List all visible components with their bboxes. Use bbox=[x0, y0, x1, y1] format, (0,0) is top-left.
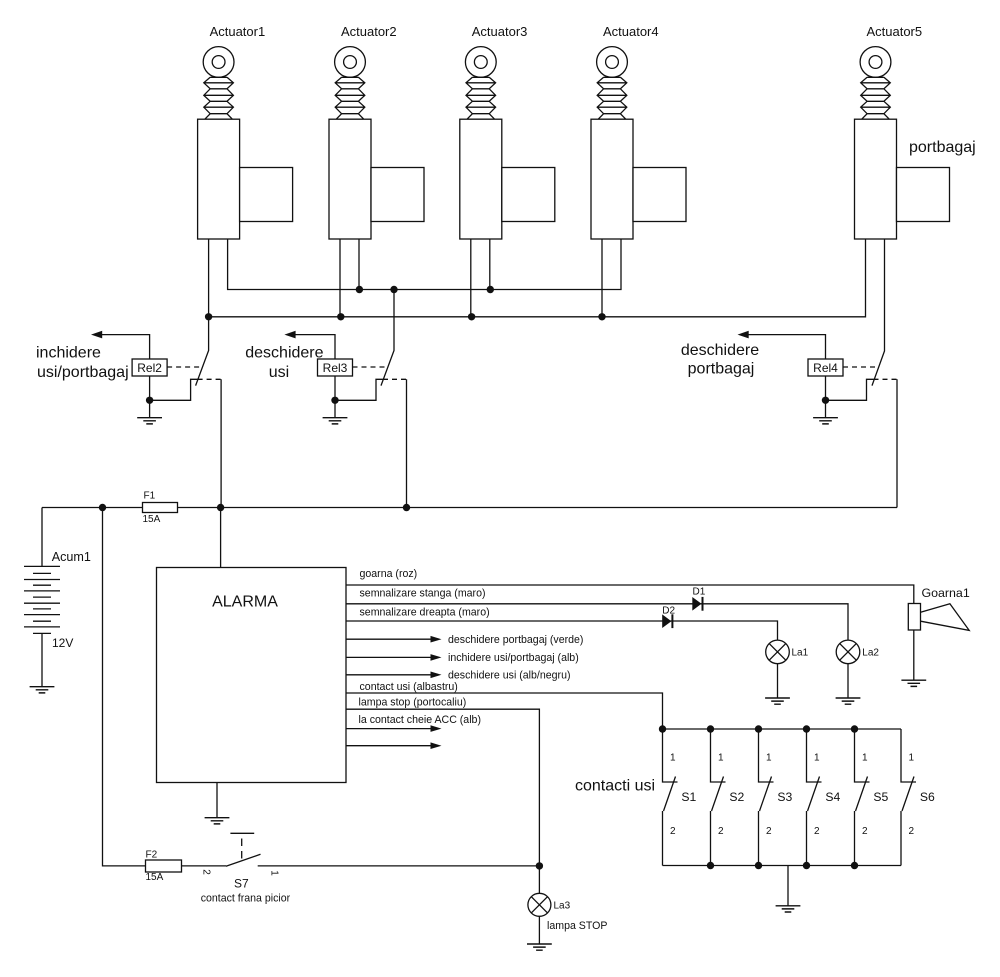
svg-text:F2: F2 bbox=[146, 850, 158, 861]
svg-text:D1: D1 bbox=[693, 587, 706, 598]
svg-text:inchidere usi/portbagaj (alb): inchidere usi/portbagaj (alb) bbox=[448, 652, 579, 664]
svg-text:goarna (roz): goarna (roz) bbox=[360, 568, 418, 580]
svg-text:2: 2 bbox=[670, 826, 676, 837]
svg-text:D2: D2 bbox=[662, 605, 675, 616]
svg-text:ALARMA: ALARMA bbox=[212, 594, 278, 611]
svg-text:lampa stop (portocaliu): lampa stop (portocaliu) bbox=[359, 697, 467, 709]
svg-text:deschidere: deschidere bbox=[245, 345, 323, 362]
svg-text:La2: La2 bbox=[862, 648, 879, 659]
svg-text:contacti usi: contacti usi bbox=[575, 778, 655, 795]
svg-text:12V: 12V bbox=[52, 636, 73, 650]
svg-text:Rel2: Rel2 bbox=[137, 361, 162, 375]
svg-text:Goarna1: Goarna1 bbox=[922, 586, 970, 600]
svg-text:Acum1: Acum1 bbox=[52, 550, 91, 564]
svg-text:Rel3: Rel3 bbox=[323, 361, 348, 375]
svg-text:contact frana picior: contact frana picior bbox=[201, 893, 291, 905]
svg-text:Actuator2: Actuator2 bbox=[341, 24, 397, 39]
svg-text:2: 2 bbox=[909, 826, 915, 837]
svg-text:S5: S5 bbox=[873, 790, 888, 804]
svg-text:contact usi (albastru): contact usi (albastru) bbox=[360, 681, 458, 693]
svg-text:S7: S7 bbox=[234, 877, 249, 891]
svg-text:2: 2 bbox=[814, 826, 820, 837]
svg-text:Actuator3: Actuator3 bbox=[472, 24, 528, 39]
svg-text:S1: S1 bbox=[681, 790, 696, 804]
svg-text:2: 2 bbox=[201, 869, 212, 875]
svg-text:La3: La3 bbox=[554, 901, 571, 912]
svg-text:S6: S6 bbox=[920, 790, 935, 804]
svg-text:2: 2 bbox=[718, 826, 724, 837]
svg-text:deschidere: deschidere bbox=[681, 342, 759, 359]
svg-text:1: 1 bbox=[766, 753, 772, 764]
svg-text:S4: S4 bbox=[825, 790, 840, 804]
svg-text:1: 1 bbox=[718, 753, 724, 764]
svg-text:Actuator1: Actuator1 bbox=[210, 24, 266, 39]
svg-text:1: 1 bbox=[814, 753, 820, 764]
svg-text:1: 1 bbox=[269, 870, 280, 876]
svg-text:Actuator5: Actuator5 bbox=[866, 24, 922, 39]
svg-text:portbagaj: portbagaj bbox=[909, 139, 976, 156]
svg-text:inchidere: inchidere bbox=[36, 345, 101, 362]
svg-text:15A: 15A bbox=[146, 872, 164, 883]
svg-text:F1: F1 bbox=[144, 491, 156, 502]
svg-text:15A: 15A bbox=[143, 514, 161, 525]
svg-text:La1: La1 bbox=[792, 648, 809, 659]
svg-text:1: 1 bbox=[862, 753, 868, 764]
svg-text:Actuator4: Actuator4 bbox=[603, 24, 659, 39]
svg-text:deschidere portbagaj (verde): deschidere portbagaj (verde) bbox=[448, 634, 583, 646]
svg-text:Rel4: Rel4 bbox=[813, 361, 838, 375]
svg-text:S2: S2 bbox=[729, 790, 744, 804]
svg-text:usi/portbagaj: usi/portbagaj bbox=[37, 364, 129, 381]
svg-text:semnalizare dreapta (maro): semnalizare dreapta (maro) bbox=[360, 607, 490, 619]
svg-text:1: 1 bbox=[909, 753, 915, 764]
svg-text:portbagaj: portbagaj bbox=[688, 361, 755, 378]
svg-text:semnalizare stanga (maro): semnalizare stanga (maro) bbox=[360, 588, 486, 600]
svg-text:2: 2 bbox=[862, 826, 868, 837]
svg-text:2: 2 bbox=[766, 826, 772, 837]
svg-text:usi: usi bbox=[269, 364, 289, 381]
svg-text:la contact cheie ACC (alb): la contact cheie ACC (alb) bbox=[359, 714, 481, 726]
svg-text:deschidere usi (alb/negru): deschidere usi (alb/negru) bbox=[448, 670, 571, 682]
svg-text:1: 1 bbox=[670, 753, 676, 764]
svg-text:lampa STOP: lampa STOP bbox=[547, 920, 607, 932]
svg-text:S3: S3 bbox=[777, 790, 792, 804]
